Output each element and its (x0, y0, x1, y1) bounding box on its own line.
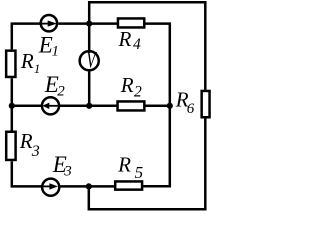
resistor R5 (115, 181, 142, 189)
wire node A down to voltmeter top (88, 24, 91, 50)
resistor R2 (118, 101, 145, 110)
wire E1 right to R4 left through node A (58, 22, 117, 25)
wire top-left corner: R1 top to E1 left (12, 24, 40, 50)
wire voltmeter bottom to node B (88, 71, 91, 105)
source E3 (42, 179, 59, 196)
wire R3 bottom, corner to E3 left (12, 161, 42, 186)
source E2 (42, 97, 59, 114)
wire E3 right to R5 left through node D (60, 185, 114, 188)
wire left-mid node to E2 left (12, 105, 41, 108)
voltmeter V (80, 47, 99, 72)
wire R4 right, down right-mid column, left to R5 right (143, 24, 170, 187)
left-mid node junction dot (9, 103, 15, 109)
wire E2 right to R2 left through node B (60, 105, 117, 108)
node C junction dot (167, 103, 173, 109)
resistor R3 (6, 132, 15, 160)
resistor R1 (6, 51, 15, 77)
wire from R6 bottom down, bottom rail, riser up to node D (89, 119, 206, 210)
node A junction dot (86, 21, 92, 27)
wire R2 right to node C (146, 105, 170, 108)
resistor R4 (118, 18, 144, 27)
node D junction dot (86, 183, 92, 189)
source E1 (41, 15, 57, 31)
node B junction dot (86, 103, 92, 109)
wire top rail from node A over to right branch down to R6 (89, 2, 205, 90)
wire R1 bottom to R3 top through left-mid node (11, 78, 14, 130)
resistor R6 (202, 91, 210, 117)
